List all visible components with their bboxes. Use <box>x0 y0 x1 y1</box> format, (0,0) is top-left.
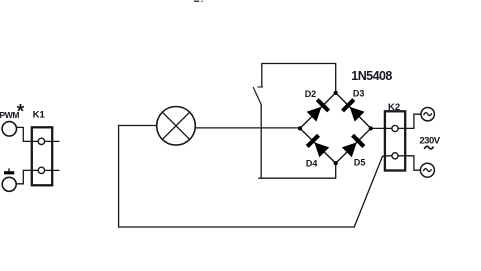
svg-text:230V: 230V <box>419 136 440 147</box>
stray cropped text at top <box>194 1 200 3</box>
K1 pin 2 circle <box>38 167 44 173</box>
diode D3 <box>341 98 365 122</box>
wire switch lower lead down to bottom rail <box>260 105 262 179</box>
ground terminal circle <box>2 177 16 191</box>
switch S1 blade <box>253 88 261 105</box>
diode bridge edge L-T <box>300 93 336 129</box>
label mains tilde <box>424 146 433 149</box>
wire ground input to K1 pin 2 <box>16 170 32 183</box>
K2 pin 1 circle <box>392 125 398 131</box>
svg-text:D3: D3 <box>353 88 365 98</box>
K1 pin 1 circle <box>38 138 44 144</box>
svg-text:D2: D2 <box>305 89 317 99</box>
wire top rail from switch to bridge plus node <box>262 64 336 93</box>
wire K2 pin 2 to source N <box>385 156 421 170</box>
node bridge AC right <box>369 126 373 130</box>
diode bridge edge L-B <box>300 128 336 163</box>
ground symbol <box>4 168 14 172</box>
diode D4 <box>306 134 330 158</box>
svg-text:D4: D4 <box>306 159 318 169</box>
wire K1 pin 1 row with right stub <box>32 140 59 142</box>
node bridge minus (bottom) <box>334 161 338 165</box>
svg-text:K2: K2 <box>388 102 400 113</box>
svg-text:K1: K1 <box>33 109 46 120</box>
AC source G1 (line) <box>421 108 434 121</box>
lamp E1 <box>157 107 196 146</box>
wire lamp right lead to bridge AC node <box>195 127 300 129</box>
wire bridge AC node to K2 pin 1 and source L <box>371 114 421 128</box>
wire K1 pin 2 row with right stub <box>32 169 59 171</box>
node bridge AC left <box>298 126 302 130</box>
wire lamp left lead <box>119 125 157 127</box>
wire left vertical down from lamp <box>118 126 120 228</box>
wire diagonal up to K2 pin 2 <box>354 156 385 227</box>
node bridge plus (top) <box>334 91 338 95</box>
AC source G2 (neutral) <box>420 163 434 177</box>
connector K2 body <box>385 111 405 170</box>
diode bridge edge T-R <box>336 93 371 129</box>
diode D5 <box>341 134 365 158</box>
svg-text:*: * <box>17 102 25 123</box>
wire bottom rail to bridge minus node <box>259 163 336 178</box>
connector K1 body <box>32 127 52 185</box>
svg-text:D5: D5 <box>354 158 366 168</box>
wire PWM input to K1 pin 1 <box>17 127 32 141</box>
switch S1 fixed contact tick <box>258 86 262 88</box>
PWM input terminal circle <box>2 122 16 136</box>
svg-text:1N5408: 1N5408 <box>351 69 392 83</box>
diode bridge edge B-R <box>336 128 371 163</box>
diode D2 <box>306 98 330 122</box>
wire bottom return run <box>119 226 355 228</box>
K2 pin 2 circle <box>392 153 398 159</box>
